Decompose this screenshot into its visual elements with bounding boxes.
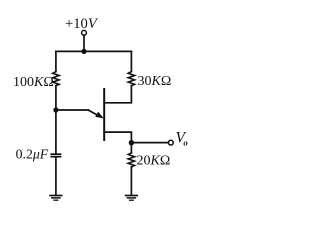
wire top rail — [56, 50, 131, 52]
resistor 30KΩ — [128, 72, 134, 86]
wire gate horizontal — [56, 109, 88, 111]
wire cap to ground — [55, 157, 57, 195]
svg-text:20KΩ: 20KΩ — [137, 154, 171, 169]
transistor gate lead with arrow — [88, 110, 104, 118]
wire supply stub — [83, 35, 85, 51]
wire 20K to ground — [130, 167, 132, 195]
resistor 100KΩ — [53, 72, 59, 86]
resistor 20KΩ — [128, 153, 134, 167]
label +10V — [65, 16, 99, 32]
label 0.2μF — [16, 146, 49, 161]
wire left branch middle — [55, 86, 57, 154]
label 30KΩ — [138, 74, 172, 89]
svg-text:o: o — [183, 137, 188, 147]
node gate junction — [53, 107, 58, 112]
label 20KΩ — [137, 154, 171, 169]
wire output — [131, 142, 168, 144]
wire drain lead to 30K branch — [104, 86, 131, 103]
wire source lead to output node — [104, 132, 131, 143]
svg-text:30KΩ: 30KΩ — [138, 74, 172, 89]
svg-text:+10V: +10V — [65, 16, 99, 32]
label Vo — [176, 129, 189, 147]
wire 20K top — [130, 143, 132, 153]
wire right branch upper — [130, 51, 132, 71]
svg-text:100KΩ: 100KΩ — [13, 75, 54, 90]
ground right — [125, 196, 138, 201]
capacitor 0.2μF — [50, 154, 61, 157]
transistor channel bar — [103, 89, 105, 140]
node top-rail junction — [81, 49, 86, 54]
terminal Vo — [168, 140, 173, 145]
svg-text:0.2μF: 0.2μF — [16, 146, 49, 161]
terminal +10V supply — [82, 30, 87, 35]
label 100KΩ — [13, 75, 54, 90]
node output junction — [129, 140, 134, 145]
ground left — [49, 196, 62, 201]
wire left branch upper — [55, 51, 57, 71]
